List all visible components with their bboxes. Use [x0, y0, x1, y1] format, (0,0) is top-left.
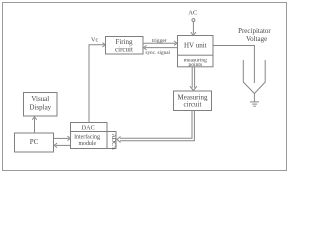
svg-text:sync. signal: sync. signal: [145, 50, 170, 56]
svg-text:Vc: Vc: [91, 37, 98, 44]
svg-text:module: module: [78, 141, 96, 147]
svg-text:HV unit: HV unit: [184, 42, 207, 50]
svg-text:trigger: trigger: [152, 38, 167, 44]
svg-text:Visual: Visual: [31, 95, 49, 103]
svg-text:circuit: circuit: [184, 100, 202, 108]
svg-text:AC: AC: [188, 10, 198, 17]
svg-text:Display: Display: [29, 104, 51, 112]
svg-text:ADC's: ADC's: [110, 133, 116, 150]
svg-text:DAC: DAC: [82, 124, 95, 131]
svg-text:Voltage: Voltage: [246, 35, 267, 43]
svg-text:Interfacing: Interfacing: [74, 134, 100, 141]
svg-text:Precipitator: Precipitator: [238, 27, 271, 35]
svg-text:circuit: circuit: [115, 46, 133, 54]
svg-text:PC: PC: [30, 138, 39, 146]
svg-text:points: points: [188, 62, 202, 68]
